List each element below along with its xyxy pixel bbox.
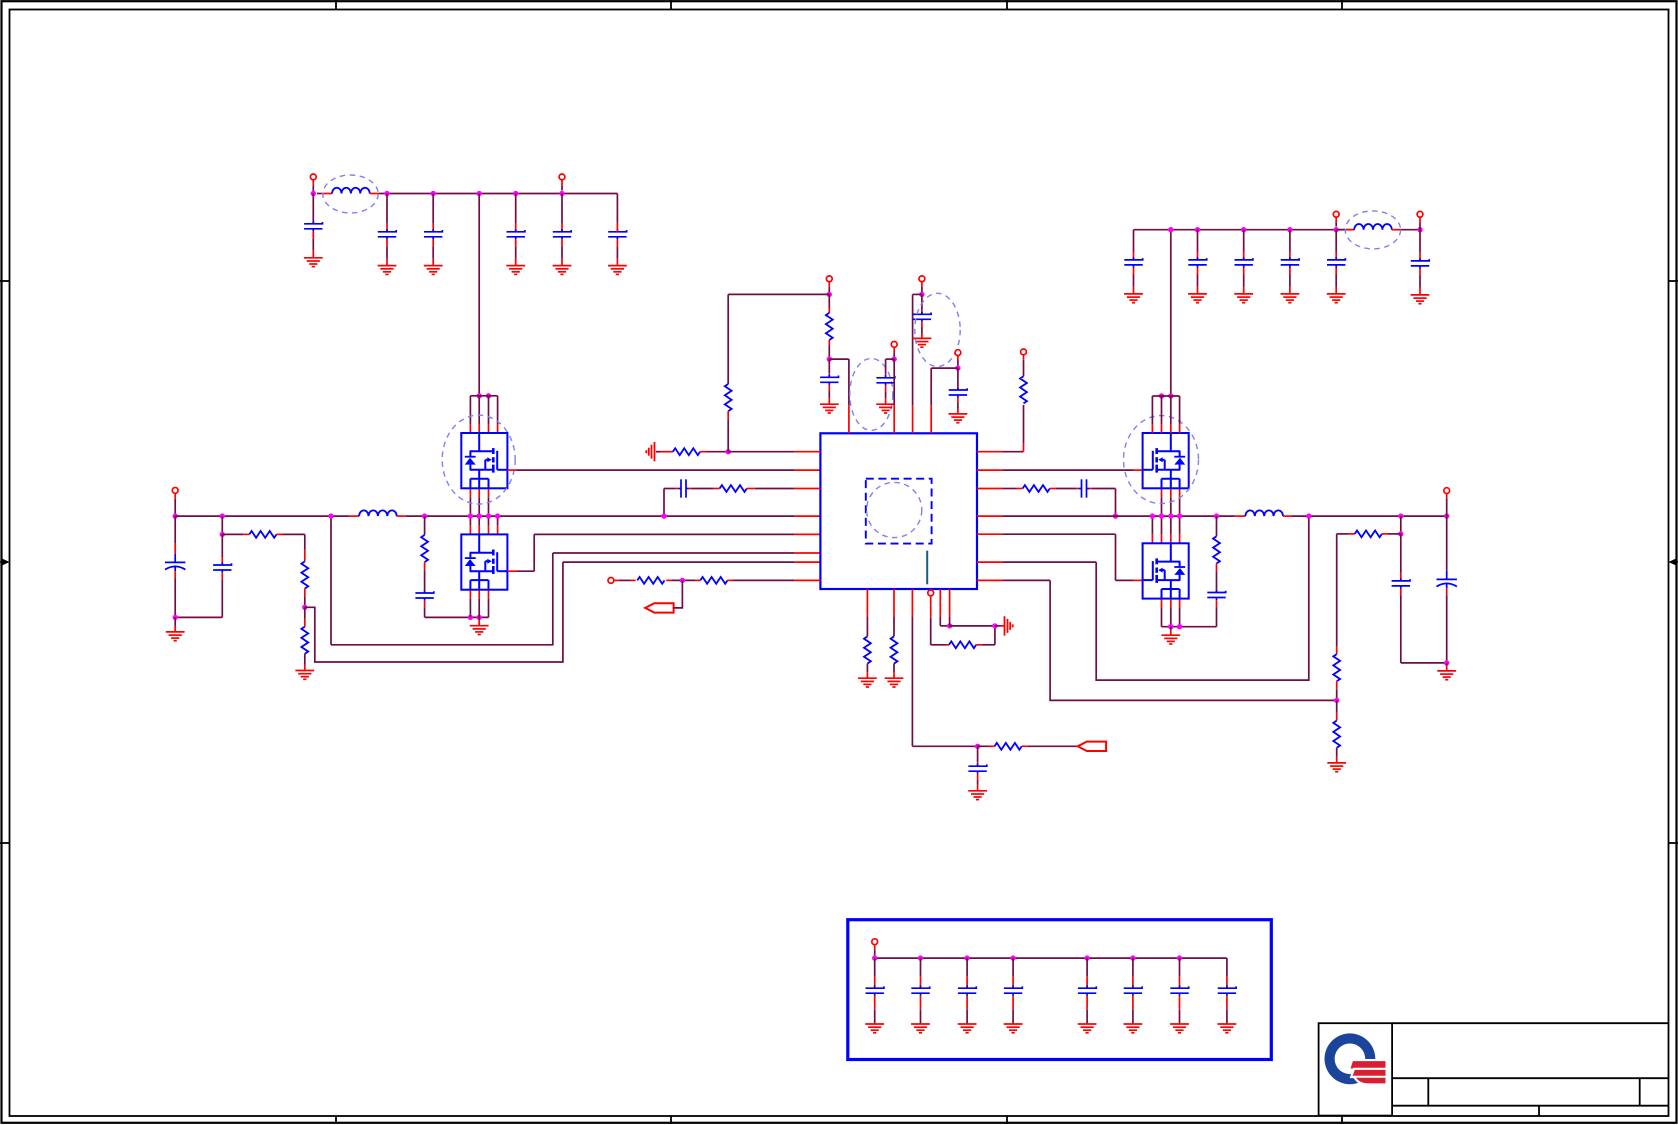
junction	[892, 356, 897, 361]
transistor Q2 (low-side MOSFET)	[461, 534, 507, 589]
transistor Q4 (low-side MOSFET)	[1143, 543, 1189, 598]
ground	[885, 678, 904, 687]
wire VIN	[312, 194, 314, 222]
ground	[858, 678, 877, 687]
wire Q3 gate	[977, 469, 1003, 471]
junction	[1195, 227, 1200, 232]
wire PGND	[425, 616, 489, 618]
junction	[477, 615, 482, 620]
wire	[893, 405, 895, 433]
resistor R11	[1023, 444, 1025, 452]
junction	[486, 513, 491, 518]
junction	[220, 513, 225, 518]
connector pin J6	[891, 342, 897, 348]
connector pin J7	[919, 276, 925, 282]
connector pin J2	[559, 174, 565, 180]
dashed ellipse Q1	[442, 415, 515, 504]
capacitor C18 (bulk)	[1446, 516, 1448, 571]
junction	[726, 449, 731, 454]
wire VOUT bus	[175, 515, 348, 517]
wire Q3 source / Q4 drain stubs	[1179, 488, 1181, 497]
capacitor C14	[957, 386, 959, 390]
ground	[820, 404, 839, 413]
capacitor bank box	[848, 920, 1272, 1060]
ground	[968, 791, 987, 800]
capacitor C17	[1400, 573, 1402, 581]
junction	[1214, 513, 1219, 518]
junction	[175, 616, 222, 618]
wire	[663, 489, 665, 517]
resistor R16	[1336, 713, 1338, 721]
junction	[661, 513, 666, 518]
ground	[1234, 294, 1253, 303]
capacitor C28	[966, 976, 968, 988]
wire	[221, 516, 223, 534]
junction	[495, 513, 500, 518]
junction	[173, 513, 178, 518]
capacitor C12	[886, 358, 895, 360]
junction	[964, 955, 969, 960]
wire	[977, 451, 1003, 453]
dashed ellipse FB2	[1345, 211, 1400, 249]
capacitor C6	[608, 229, 626, 239]
wire	[727, 294, 729, 384]
ground	[378, 266, 397, 275]
ground	[1327, 763, 1346, 772]
wire 5V bus	[382, 193, 617, 195]
ground	[1327, 294, 1346, 303]
wire Q4 gate	[977, 533, 1003, 535]
wire	[674, 580, 683, 608]
wire 12V bus	[1134, 229, 1355, 231]
capacitor C25	[977, 762, 979, 766]
capacitor C15	[1050, 488, 1056, 490]
wire FB to pin	[305, 562, 563, 662]
IC U1 (PWM controller)	[820, 433, 977, 589]
resistor R20	[989, 745, 995, 747]
connector pin J13	[928, 590, 934, 596]
ground	[1281, 294, 1300, 303]
resistor R17	[866, 589, 868, 617]
connector pin J3	[172, 488, 178, 494]
capacitor C30	[1086, 976, 1088, 988]
ferrite bead FB1	[321, 193, 332, 195]
resistor R19	[949, 641, 976, 648]
junction	[486, 393, 491, 398]
resistor R12	[977, 488, 1003, 490]
junction	[1177, 955, 1182, 960]
wire SW bus right	[977, 515, 1003, 517]
wire	[1089, 488, 1092, 490]
resistor R14	[1349, 533, 1355, 535]
junction	[513, 191, 518, 196]
junction	[827, 292, 832, 297]
ground	[553, 266, 572, 275]
capacitor C8	[221, 557, 223, 565]
dashed ellipse FB1	[323, 175, 378, 213]
ground	[949, 414, 968, 423]
junction	[827, 356, 832, 361]
capacitor C9 (snubber)	[424, 562, 426, 570]
ground	[1124, 294, 1143, 303]
capacitor C24	[1419, 253, 1421, 261]
capacitor C31	[1132, 976, 1134, 988]
wire to Q3 drain	[1170, 230, 1172, 396]
junction	[992, 623, 997, 628]
connector pin J1	[310, 174, 316, 180]
junction	[1168, 393, 1173, 398]
inductor L1	[349, 515, 360, 517]
junction	[477, 393, 482, 398]
junction	[220, 532, 225, 537]
connector pin J10	[1444, 488, 1450, 494]
junction	[1168, 624, 1173, 629]
wire	[949, 589, 951, 617]
wire comp loop	[977, 561, 1003, 563]
wire Q1 gate	[507, 469, 516, 471]
ground	[1411, 295, 1430, 304]
capacitor C16 (snubber)	[1216, 564, 1218, 572]
capacitor C21	[1243, 252, 1245, 260]
wire	[1400, 516, 1402, 534]
ground	[174, 626, 176, 632]
wire	[794, 451, 820, 453]
resistor R8	[614, 579, 619, 581]
junction	[384, 191, 389, 196]
ground	[911, 1024, 930, 1033]
junction	[1159, 393, 1164, 398]
ground	[1218, 1024, 1237, 1033]
connector pin J14	[872, 939, 878, 945]
capacitor C29	[1012, 976, 1014, 988]
dashed ellipse Q3	[1124, 416, 1199, 504]
resistor R9	[700, 577, 727, 584]
junction	[1444, 513, 1449, 518]
transistor Q1 (high-side MOSFET)	[461, 433, 507, 488]
wire SW bus	[794, 515, 820, 517]
ground	[1188, 294, 1207, 303]
ground	[424, 266, 443, 275]
connector pin J11	[1333, 211, 1339, 217]
resistor R4 (snubber)	[424, 516, 426, 535]
junction	[1010, 955, 1015, 960]
junction wire	[666, 579, 671, 581]
connector pin J8	[955, 350, 961, 356]
capacitor C19	[1124, 257, 1142, 267]
resistor R10	[828, 308, 830, 313]
capacitor C22	[1289, 252, 1291, 260]
capacitor C20	[1197, 252, 1199, 260]
wire Q1 source / Q2 drain stubs	[469, 488, 471, 497]
resistor R5	[661, 451, 673, 453]
wire PGND right	[1162, 626, 1217, 628]
wire Q2 gate	[507, 570, 516, 572]
wire	[1336, 646, 1338, 654]
junction	[947, 623, 952, 628]
title block	[1319, 1023, 1669, 1116]
capacitor C11	[828, 373, 830, 377]
wire	[911, 589, 913, 617]
wire	[931, 367, 958, 369]
ground	[1446, 666, 1448, 671]
capacitor C33	[1218, 986, 1236, 996]
ground	[1124, 1024, 1143, 1033]
IC U1 thermal pad	[866, 479, 932, 544]
ground	[1078, 1024, 1097, 1033]
resistor R1	[243, 533, 249, 535]
capacitor C4	[515, 224, 517, 232]
resistor R7	[689, 488, 692, 490]
capacitor C26	[874, 976, 876, 988]
resistor R3	[304, 619, 306, 627]
junction	[1336, 681, 1338, 689]
ground	[1170, 630, 1172, 635]
ground	[478, 620, 480, 626]
resistor R18	[893, 589, 895, 617]
wire cap bank bus	[875, 957, 1227, 959]
dashed ellipse	[915, 293, 960, 366]
junction	[559, 191, 564, 196]
resistor R15	[1333, 654, 1340, 681]
ground	[865, 1024, 884, 1033]
junction	[328, 513, 333, 518]
wire drain bracket	[470, 395, 497, 397]
capacitor C23	[1335, 252, 1337, 260]
logo	[1325, 1033, 1376, 1084]
ground	[1004, 1024, 1023, 1033]
junction	[1168, 513, 1173, 518]
capacitor C3	[432, 224, 434, 232]
ground	[876, 404, 895, 413]
junction	[1306, 513, 1311, 518]
junction	[468, 513, 473, 518]
wire PGOOD loop	[330, 516, 332, 645]
junction	[1444, 660, 1449, 665]
capacitor C1	[312, 221, 314, 224]
junction	[1334, 227, 1339, 232]
junction	[1287, 227, 1292, 232]
wire	[1401, 662, 1447, 664]
junction	[1398, 531, 1403, 536]
connector pin J9	[1021, 349, 1027, 355]
wire	[994, 626, 996, 645]
capacitor C32	[1179, 976, 1181, 988]
junction	[1177, 624, 1182, 629]
junction	[1417, 227, 1422, 232]
junction	[422, 513, 427, 518]
wire drain bracket	[1152, 395, 1179, 397]
connector pin J12	[1417, 211, 1423, 217]
junction	[1130, 955, 1135, 960]
ferrite bead FB2	[1345, 229, 1355, 231]
wire	[939, 589, 941, 617]
junction	[468, 615, 473, 620]
ground	[506, 266, 525, 275]
capacitor C7 (bulk)	[174, 544, 176, 554]
junction	[1177, 513, 1182, 518]
junction	[431, 191, 436, 196]
ground	[295, 671, 314, 680]
wire FB right	[977, 579, 1003, 581]
junction	[1159, 513, 1164, 518]
wire	[930, 596, 932, 618]
wire to Q1 drain	[478, 194, 480, 396]
ground	[608, 266, 627, 275]
junction	[1113, 513, 1118, 518]
junction	[302, 605, 307, 610]
junction	[311, 191, 316, 196]
wire	[304, 549, 306, 561]
capacitor C2	[386, 224, 388, 232]
junction	[955, 365, 960, 370]
junction	[477, 191, 482, 196]
net tag VREF	[1078, 742, 1106, 751]
connector pin J4	[608, 578, 614, 584]
ground	[304, 258, 323, 267]
transistor Q3 (high-side MOSFET)	[1143, 433, 1189, 488]
capacitor C5	[561, 224, 563, 232]
junction	[477, 513, 482, 518]
capacitor C27	[920, 976, 922, 988]
signal ground	[646, 442, 654, 461]
wire	[304, 589, 306, 597]
junction	[919, 292, 924, 297]
resistor R6	[725, 384, 732, 411]
signal ground	[1001, 625, 1005, 627]
wire	[913, 293, 922, 295]
capacitor C10	[676, 488, 679, 490]
inductor L2	[1245, 510, 1283, 516]
junction	[1398, 513, 1403, 518]
junction	[918, 955, 923, 960]
IC U1 pad circle	[867, 482, 922, 537]
resistor R13 (snubber)	[1216, 516, 1218, 536]
dashed ellipse	[850, 358, 893, 430]
junction	[1168, 227, 1173, 232]
ground	[958, 1024, 977, 1033]
wire	[728, 293, 829, 295]
junction	[1150, 513, 1155, 518]
resistor R2	[301, 561, 308, 588]
connector pin J5	[826, 276, 832, 282]
junction	[1241, 227, 1246, 232]
junction	[975, 744, 980, 749]
junction	[1084, 955, 1089, 960]
junction	[872, 955, 877, 960]
ground	[1170, 1024, 1189, 1033]
net tag EN	[645, 603, 673, 612]
wire to VCC pin	[829, 358, 849, 360]
IC U1 pin-1 mark	[926, 551, 928, 585]
ground	[913, 338, 932, 347]
capacitor C13	[921, 310, 923, 314]
